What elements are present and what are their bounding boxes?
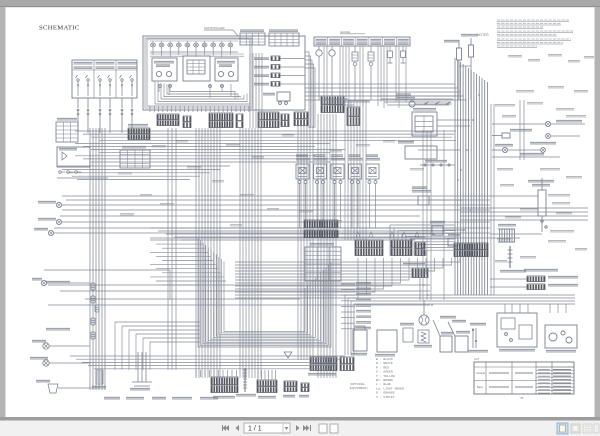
- left vertical bundle A: [90, 128, 105, 390]
- fender lamp: [48, 384, 58, 393]
- connector cluster 8: [347, 107, 360, 126]
- bottom connector 3: [284, 381, 297, 392]
- connector cluster row 2: [183, 116, 191, 128]
- front lamp: [43, 343, 49, 349]
- turn signal relay: [349, 164, 362, 184]
- elbow fan to loops: [235, 258, 460, 298]
- ac labels: [524, 270, 558, 272]
- controller oval row: [151, 41, 156, 52]
- intake heater grid: [498, 229, 515, 242]
- routing loop rectangles: [198, 238, 331, 347]
- wire fan controller-right: [305, 52, 467, 128]
- parking lamp: [56, 202, 61, 207]
- right side labels: [495, 55, 594, 262]
- controller sub-box 2: [183, 56, 210, 81]
- color legend: [376, 357, 404, 399]
- controller bottom stubs: [150, 106, 249, 112]
- license lamp wire: [492, 156, 560, 158]
- horn bottom: [284, 352, 292, 358]
- right verticals to bottom: [491, 100, 524, 295]
- page number box: [244, 423, 290, 433]
- starting motor: [419, 315, 429, 325]
- bottom connector 2: [257, 380, 277, 393]
- generator controller cluster: [310, 357, 337, 371]
- part number table: [474, 357, 574, 394]
- controller inner frame: [147, 39, 250, 106]
- mid verticals key-switch to battery: [423, 130, 444, 300]
- bundle junction dots: [457, 94, 480, 231]
- controller relay matrix tables: [240, 33, 265, 45]
- viewer right strip: [595, 7, 600, 418]
- center spine verticals: [250, 53, 262, 128]
- flasher box: [57, 147, 90, 167]
- rear lamp row 2: [502, 133, 510, 138]
- layout icon selected: [557, 423, 568, 434]
- connector cluster row 1: [157, 114, 179, 126]
- right long horizontals: [460, 208, 588, 220]
- fuse outputs: [341, 283, 371, 329]
- center vertical bundle B: [196, 128, 220, 378]
- safety relay: [448, 238, 458, 246]
- center vertical bundle E: [318, 114, 336, 378]
- starting relay box: [497, 313, 537, 347]
- center vertical bundle D: [298, 126, 313, 360]
- fusible link wires: [458, 60, 460, 100]
- controller sub circles: [159, 85, 162, 88]
- controller sub-box 1: [152, 58, 177, 81]
- gauge symbols: [316, 46, 322, 100]
- mid horizontal bus: [75, 131, 456, 162]
- switch panel box: [72, 60, 137, 98]
- alternator box: [545, 325, 577, 348]
- svg-text:Canada: Canada: [476, 371, 486, 375]
- resistor box: [405, 146, 437, 159]
- nav next button: [296, 425, 300, 431]
- wires from switch panel: [77, 98, 79, 108]
- battery 2: [377, 330, 397, 352]
- svg-text:CONTROLLER: CONTROLLER: [204, 26, 225, 30]
- pressure switch: [418, 196, 429, 205]
- layout icon 4: [594, 424, 599, 433]
- engine connector cluster 3: [415, 242, 425, 256]
- key switch: [409, 101, 415, 107]
- mid band labels: [118, 135, 424, 226]
- fuse block right of flasher: [128, 128, 150, 140]
- glow plug chain: [420, 164, 455, 166]
- bottom gather bus: [70, 356, 345, 369]
- connector cluster 6: [281, 114, 289, 127]
- viewer left strip: [0, 7, 6, 418]
- bottom-left elbow corners: [115, 322, 200, 370]
- center vertical bundle C: [240, 128, 261, 378]
- controller nested routing: [155, 81, 250, 104]
- switches in panel: [76, 75, 80, 96]
- svg-text:1 / 1: 1 / 1: [248, 426, 262, 433]
- a-c comp relay: [331, 164, 344, 184]
- nav prev button: [236, 425, 240, 431]
- engine connector cluster 2: [391, 240, 412, 256]
- wiper relay: [366, 164, 379, 184]
- work lamp: [41, 280, 46, 285]
- controller sub-box 3: [215, 58, 238, 81]
- bottom toolbar: [0, 421, 600, 436]
- right box feeds: [505, 304, 566, 313]
- connector cluster big: [209, 113, 233, 128]
- air heater connector: [412, 268, 428, 278]
- resistor coil bottom: [243, 368, 247, 392]
- head lamp: [56, 219, 61, 224]
- arrow marks: [356, 232, 360, 237]
- battery lock table: [120, 150, 150, 168]
- bottom small labels: [104, 398, 120, 400]
- time delay relay: [314, 164, 327, 184]
- nav last page button: [303, 425, 311, 431]
- page view icon 2: [330, 424, 338, 433]
- battery labels: [440, 317, 456, 319]
- layout icon 2: [571, 424, 580, 433]
- left vertical pair: [168, 128, 176, 370]
- nav first page button: [222, 425, 229, 431]
- svg-text:SCHEMATIC: SCHEMATIC: [39, 25, 80, 32]
- notes text block: [477, 20, 573, 48]
- connector cluster 5: [258, 112, 279, 128]
- battery pair right: [440, 336, 452, 352]
- buzzer mirror relay: [296, 164, 309, 184]
- inline connector bundle: [91, 283, 99, 339]
- connector cluster 7: [294, 112, 308, 126]
- diagonal wire fan: [390, 225, 455, 256]
- turn signal lamp table: [56, 122, 78, 142]
- bottom wire gather: [196, 370, 276, 380]
- fuel sender symbols: [352, 46, 358, 100]
- center horizontal bus: [150, 228, 455, 240]
- fusible link 2: [469, 45, 474, 57]
- battery 1: [353, 330, 367, 351]
- glow plug: [508, 246, 513, 268]
- gauge drop verticals: [345, 100, 366, 240]
- battery diagonal wires: [433, 320, 440, 336]
- layout icon 3: [583, 424, 592, 433]
- stand assembly: [132, 352, 152, 386]
- fuse table: [305, 247, 341, 281]
- svg-text:GAUGE: GAUGE: [340, 30, 350, 34]
- ac compressor connectors: [527, 276, 545, 282]
- controller interior wiring: [150, 52, 244, 98]
- secondary bus left: [57, 166, 230, 180]
- gauge wire drops: [324, 46, 406, 108]
- main vertical wire bundle: [455, 58, 487, 295]
- svg-text:EQUIPMENT): EQUIPMENT): [350, 386, 368, 390]
- relay drop wires: [300, 184, 376, 229]
- rear lamp row 3: [502, 147, 507, 152]
- small component row: [432, 226, 443, 235]
- engine connector cluster 1: [355, 240, 383, 256]
- page bottom edge: [0, 417, 600, 421]
- inline switches: [424, 102, 429, 105]
- sensor symbols: [388, 46, 393, 63]
- svg-text:NOTES: NOTES: [477, 33, 489, 37]
- rear combination lamp: [43, 360, 49, 366]
- beacon wiring: [44, 269, 170, 271]
- svg-text:Base: Base: [477, 385, 483, 389]
- controller right stack: [271, 56, 280, 61]
- inline connector labels: [46, 282, 70, 284]
- connector cluster 4: [236, 114, 243, 128]
- gauge elbow turns: [321, 96, 455, 105]
- horn cylinder: [96, 370, 103, 384]
- gauge box: [314, 37, 410, 46]
- glow relay in controller: [277, 92, 290, 101]
- svg-text:76: 76: [520, 396, 524, 400]
- harness connector cluster: [321, 96, 344, 113]
- loop horizontals: [150, 240, 226, 285]
- controller box: [143, 36, 305, 110]
- gen controller cluster 2: [340, 357, 354, 371]
- bottom connector 4: [301, 383, 309, 392]
- right lower bus: [345, 295, 575, 355]
- turn signal switch symbols: [59, 171, 66, 174]
- viewer top bar: [0, 0, 600, 7]
- rear lamp row 1: [545, 121, 550, 126]
- right mid labels: [505, 195, 574, 232]
- cold start wires: [490, 195, 538, 197]
- tail lamp: [48, 230, 53, 235]
- svg-text:V : VIOLET: V : VIOLET: [376, 395, 395, 399]
- fuse block connector rows: [304, 220, 338, 228]
- relay symbol mid: [403, 328, 413, 342]
- ground wire pair: [472, 328, 474, 348]
- relay row labels: [296, 159, 310, 161]
- bottom-left horizontals: [48, 284, 433, 306]
- bottom connector 1: [211, 377, 238, 393]
- fuse row under switch panel: [77, 109, 79, 115]
- page view icon 1: [319, 424, 327, 433]
- wide horizontal feeds: [54, 196, 520, 238]
- bundle connector band: [454, 243, 488, 257]
- cold start device: [538, 190, 546, 216]
- svg-text:CUT: CUT: [474, 357, 480, 361]
- engine stop control box: [412, 112, 437, 136]
- fusible link 1: [457, 48, 462, 60]
